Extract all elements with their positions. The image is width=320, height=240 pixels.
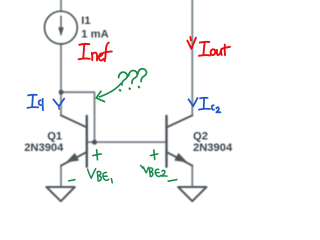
transistor Q1 emitter with arrow <box>61 152 87 166</box>
annotation blue Ic2 arrow <box>189 98 198 106</box>
svg-text:Q1: Q1 <box>47 130 62 142</box>
annotation green minus VBE2 <box>168 180 177 182</box>
wire current source to Q1 collector corner <box>60 44 62 116</box>
annotation green VBE1 <box>88 169 113 183</box>
wire top feed to Q2 collector (Iout) <box>191 0 193 116</box>
annotation blue Ic1 arrow <box>53 99 64 110</box>
wire Q1 emitter to ground <box>60 165 62 186</box>
annotation blue Ic2 text <box>199 98 221 113</box>
ground symbol at Q2 <box>178 187 206 201</box>
svg-text:1 mA: 1 mA <box>81 29 108 41</box>
svg-text:2N3904: 2N3904 <box>24 142 64 154</box>
annotation red Iout text <box>199 42 230 56</box>
annotation green plus VBE1 <box>93 150 101 160</box>
wire top feed to current source <box>60 0 62 11</box>
annotation blue Ic1 <box>28 95 44 110</box>
junction dot collector-base tie <box>92 140 97 145</box>
annotation green VBE2 <box>141 165 167 176</box>
junction node A dot <box>59 90 64 95</box>
transistor Q1 base bar <box>86 116 88 167</box>
annotation green minus VBE1 <box>69 180 75 181</box>
transistor Q2 base bar <box>165 116 167 167</box>
svg-text:I1: I1 <box>81 15 90 27</box>
annotation green arrow to node <box>96 83 121 101</box>
transistor Q2 collector diagonal <box>167 115 193 127</box>
current source I1 circle <box>45 11 78 44</box>
svg-text:Q2: Q2 <box>193 130 208 142</box>
annotation red Iref <box>79 43 112 62</box>
annotation green plus VBE2 <box>150 150 157 159</box>
transistor Q2 emitter with arrow <box>167 152 193 166</box>
svg-text:2N3904: 2N3904 <box>193 142 233 154</box>
current source I1 arrow <box>59 16 64 35</box>
transistor Q1 collector diagonal <box>61 115 87 127</box>
wire node A branch to bases <box>61 92 94 142</box>
base wire Q1 to Q2 <box>87 141 167 143</box>
annotation green question marks <box>119 69 147 91</box>
wire Q2 emitter to ground <box>191 165 193 186</box>
annotation red Iout arrow <box>187 37 196 49</box>
ground symbol at Q1 <box>46 187 74 201</box>
